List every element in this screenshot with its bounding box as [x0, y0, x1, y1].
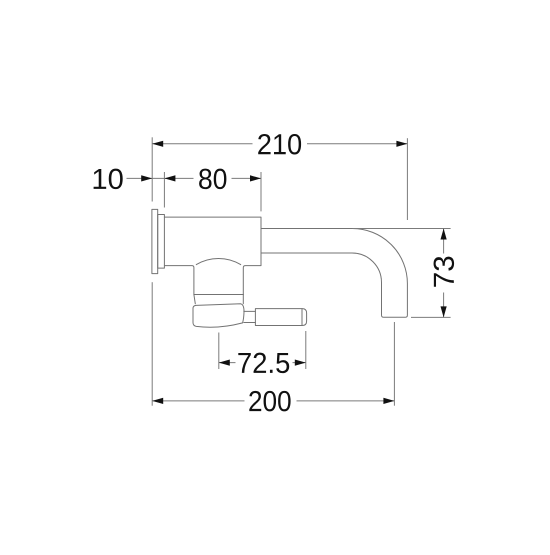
extension line handle pivot (72.5 start) [218, 333, 220, 370]
label 73 [434, 257, 455, 287]
tick spout outlet level (73 bottom) [411, 316, 451, 318]
valve neck sides [194, 295, 243, 304]
dimension line 210 [152, 143, 407, 145]
arrow 73 bottom [441, 306, 447, 317]
handle stem [244, 311, 256, 322]
dimension line 72.5 [219, 362, 306, 364]
extension line spout tip (210 end) [406, 138, 408, 220]
dimension line 73 [443, 229, 445, 318]
wall extension line (left, lower segment) [151, 282, 153, 406]
label 72.5 [238, 353, 289, 374]
spout [261, 229, 407, 318]
extension line spout outlet (200 end) [393, 322, 395, 406]
dimension line 10 and 80 [127, 177, 262, 179]
arrow 200 right [383, 398, 394, 404]
arrow 72.5 left [219, 360, 230, 366]
extension line body end (80 end) [260, 172, 262, 211]
wall extension line (left, upper segment) [151, 137, 153, 201]
arrow 73 top [441, 229, 447, 240]
label 200 [249, 391, 290, 412]
extension line handle end (72.5 end) [305, 331, 307, 369]
extension line body front (80 start) [163, 172, 165, 208]
label 210 [258, 134, 301, 155]
wall flange plate [152, 209, 158, 273]
valve dome arch [196, 259, 240, 265]
arrow 10 outside [141, 175, 152, 181]
label 10 [94, 169, 123, 190]
arrow 210 left [152, 141, 163, 147]
label 80 [199, 169, 226, 190]
arrow 210 right [396, 141, 407, 147]
handle grip cap line [301, 309, 303, 326]
arrow 80 right [250, 175, 261, 181]
dimension line 200 [152, 400, 394, 402]
tick spout top level (73 top) [353, 228, 451, 230]
horizontal body [164, 217, 261, 294]
body collar [158, 215, 165, 269]
arrow 80 left [164, 175, 175, 181]
handle cartridge housing [193, 304, 244, 328]
valve cylinder bottom line [194, 294, 243, 296]
arrow 72.5 right [295, 360, 306, 366]
handle grip [255, 309, 306, 326]
arrow 200 left [152, 398, 163, 404]
